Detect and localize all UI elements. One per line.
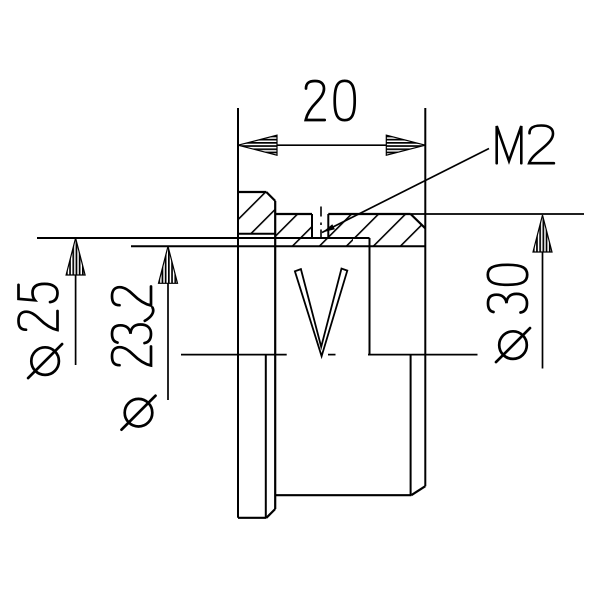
O25 text (rotated) <box>19 284 63 378</box>
body top face (right of M2 hole) <box>328 213 410 215</box>
text 20 <box>306 81 355 120</box>
flange left edge + dim extension line <box>237 108 239 518</box>
section hatching (flange + body wall) <box>238 192 425 246</box>
flange chamfer start line (lower half) <box>265 355 267 518</box>
dimension line 20 <box>238 144 425 146</box>
O30 dimension arrow <box>542 217 544 369</box>
V marking symbol <box>295 269 347 357</box>
M2 text <box>497 126 554 164</box>
flange right face line <box>274 201 276 509</box>
M2 hole left wall <box>311 214 313 238</box>
body top face (left of M2 hole) <box>275 213 312 215</box>
body top right chamfer <box>411 214 426 228</box>
flange counterbore line <box>238 233 275 235</box>
O30 text (rotated) <box>488 265 530 362</box>
O23,2 dimension arrow <box>167 249 169 400</box>
flange bottom chamfer <box>266 509 275 518</box>
bore step edge <box>369 238 371 355</box>
flange bottom edge <box>238 517 266 519</box>
body right edge + dim extension line <box>424 108 426 486</box>
M2 hole right wall <box>327 214 329 238</box>
M2 leader line <box>322 149 489 233</box>
flange top chamfer <box>266 192 275 201</box>
body chamfer start line (lower half) <box>410 355 412 496</box>
M2 tapped hole (white cutout in hatching) <box>312 213 328 238</box>
top face line O30 + extension to right <box>411 213 584 215</box>
body bottom edge <box>275 494 411 496</box>
bore line O23.2 + extension to left <box>131 245 425 247</box>
part centerline (axis) <box>181 354 478 356</box>
body bottom right chamfer <box>411 486 425 495</box>
arrowhead left of dim 20 <box>238 135 277 155</box>
M2 hole centerline <box>320 207 322 239</box>
flange top edge <box>238 191 266 193</box>
M2 leader arrowhead <box>322 224 335 232</box>
O25 dimension arrow <box>75 240 77 365</box>
bore line O25 + extension to left <box>37 237 370 239</box>
O23,2 text (rotated) <box>112 287 156 430</box>
arrowhead right of dim 20 <box>386 135 425 155</box>
